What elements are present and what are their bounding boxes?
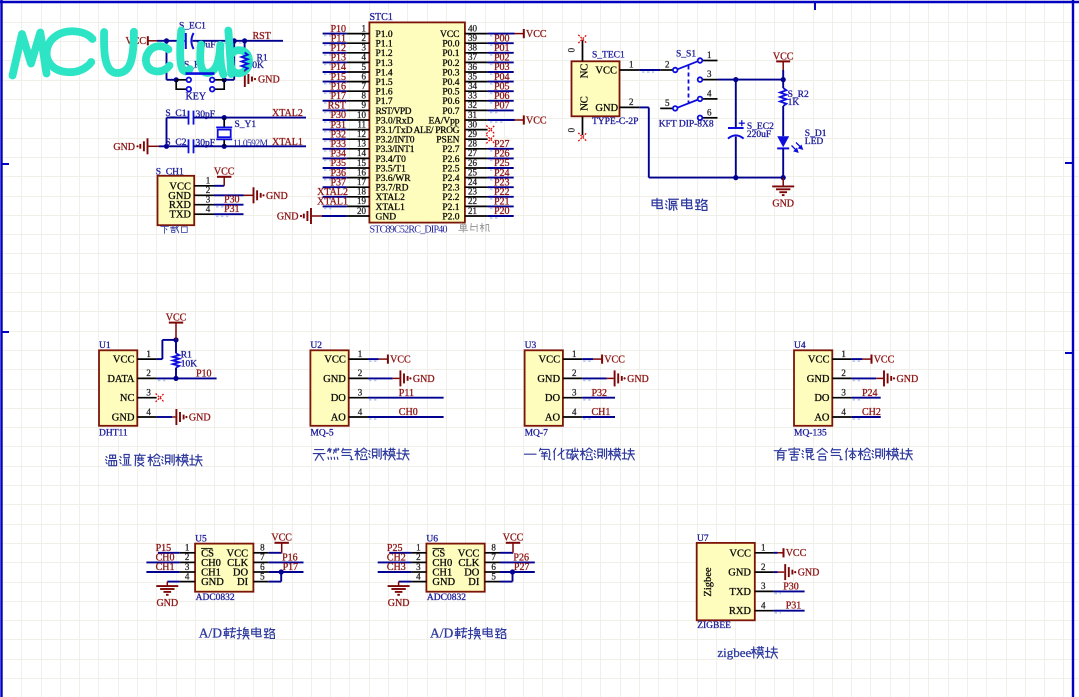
svg-text:0: 0 — [567, 127, 577, 132]
svg-text:1: 1 — [841, 349, 846, 359]
pin 3 STC1 P1.2 — [347, 52, 370, 54]
svg-text:P1.0: P1.0 — [376, 30, 393, 40]
pin 6 U6 — [485, 571, 500, 573]
svg-text:VCC: VCC — [440, 30, 460, 40]
svg-text:7: 7 — [491, 552, 496, 562]
pin 31 STC1 EA/Vpp — [465, 119, 488, 121]
pin 27 STC1 P2.6 — [465, 157, 488, 159]
pin 12 STC1 P3.2/INT0 — [347, 138, 370, 140]
pin 8 U6 — [485, 552, 500, 554]
pin 3 U6 — [411, 571, 426, 573]
pin 3 U3 — [563, 397, 582, 399]
pin 35 STC1 P0.4 — [465, 81, 488, 83]
svg-text:PSEN: PSEN — [436, 136, 459, 146]
svg-text:23: 23 — [468, 187, 478, 197]
svg-text:VCC: VCC — [604, 355, 625, 366]
pin 3 U4 — [832, 397, 851, 399]
pin 15 STC1 P3.5/T1 — [347, 167, 370, 169]
power port VCC (U5) — [281, 543, 283, 553]
pin 3 U7 — [755, 590, 774, 592]
svg-text:AO: AO — [331, 413, 347, 424]
svg-text:2: 2 — [841, 368, 846, 378]
svg-text:8: 8 — [362, 91, 367, 101]
svg-text:S_S1: S_S1 — [676, 50, 696, 60]
svg-text:GND: GND — [897, 374, 919, 385]
svg-text:2: 2 — [665, 60, 670, 70]
pin 24 STC1 P2.3 — [465, 186, 488, 188]
pin 2 S_CH1 — [194, 194, 214, 196]
svg-text:GND: GND — [277, 212, 299, 223]
svg-text:DI: DI — [237, 577, 249, 588]
svg-text:8: 8 — [491, 543, 496, 553]
svg-text:XTAL1: XTAL1 — [317, 197, 348, 208]
label module caption U4 — [774, 448, 786, 460]
node reset-left — [164, 38, 169, 43]
label download-port — [161, 226, 169, 233]
svg-text:ADC0832: ADC0832 — [427, 593, 466, 603]
svg-text:TXD: TXD — [729, 587, 751, 598]
pin 13 STC1 P3.3/INT1 — [347, 148, 370, 150]
pin 7 U6 — [485, 561, 500, 563]
wire crystal left — [159, 145, 188, 147]
ground GND (STC1 pin 20) — [304, 208, 311, 224]
svg-text:VCC: VCC — [786, 548, 807, 559]
pin 11 STC1 P3.1/TxD — [347, 129, 370, 131]
pin 4 STC1 P1.3 — [347, 61, 370, 63]
svg-text:VCC: VCC — [526, 115, 547, 126]
pin 1 STC1 P1.0 — [347, 33, 370, 35]
pin 1 U7 — [755, 552, 774, 554]
pin 7 STC1 P1.6 — [347, 90, 370, 92]
wire net P23 (STC1 right) — [488, 186, 514, 188]
wire ground rail — [649, 177, 783, 179]
pin 26 STC1 P2.5 — [465, 167, 488, 169]
key switch S_K1 labels — [174, 77, 179, 82]
label module caption U3 — [524, 453, 536, 455]
wire pin1 VCC (U2) — [368, 358, 379, 360]
svg-text:S_Y1: S_Y1 — [235, 120, 257, 130]
wire net P03 (STC1 right) — [488, 71, 514, 73]
pin 4 U2 — [349, 416, 368, 418]
wire net CH0 (U5) — [146, 561, 179, 563]
wire net P11 (STC1 left) — [323, 42, 347, 44]
wire net P01 (STC1 right) — [488, 52, 514, 54]
wire net P30 (STC1 left) — [323, 119, 347, 121]
svg-text:3: 3 — [146, 388, 151, 398]
pin 10 STC1 P3.0/RxD — [347, 119, 370, 121]
svg-text:P3.7/RD: P3.7/RD — [376, 184, 409, 194]
wire pin4 to ground (U5) — [167, 581, 180, 583]
svg-text:TYPE-C-2P: TYPE-C-2P — [592, 117, 638, 127]
svg-text:4: 4 — [146, 407, 151, 417]
wire net P26 (U6) — [500, 561, 535, 563]
wire net RST (STC1 left) — [323, 109, 347, 111]
pin 7 U5 — [253, 561, 268, 563]
wire net P24 (U4) — [852, 397, 881, 399]
svg-text:S_C1: S_C1 — [165, 109, 186, 119]
wire node to R2 — [782, 80, 784, 88]
pin 39 STC1 P0.0 — [465, 42, 488, 44]
wire net P31 (STC1 left) — [323, 129, 347, 131]
svg-text:11: 11 — [357, 119, 366, 129]
svg-text:1: 1 — [362, 23, 367, 33]
pin 23 STC1 P2.2 — [465, 196, 488, 198]
svg-text:GND: GND — [595, 103, 618, 114]
svg-text:15: 15 — [357, 158, 367, 168]
pin 4 U3 — [563, 416, 582, 418]
wire net P10 (U1) — [157, 377, 217, 379]
svg-text:A/D: A/D — [199, 626, 223, 641]
svg-text:P2.6: P2.6 — [442, 155, 459, 165]
svg-text:MQ-7: MQ-7 — [525, 428, 548, 438]
svg-text:0: 0 — [567, 47, 577, 52]
node R1-top — [173, 337, 178, 342]
svg-text:VCC: VCC — [113, 355, 135, 366]
svg-text:P1.7: P1.7 — [376, 97, 393, 107]
svg-text:2: 2 — [572, 368, 577, 378]
ground GND (crystal) — [140, 138, 147, 154]
wire net P32 (U3) — [582, 397, 615, 399]
pin 18 STC1 XTAL2 — [347, 196, 370, 198]
svg-text:25: 25 — [468, 167, 478, 177]
pin 32 STC1 P0.7 — [465, 109, 488, 111]
svg-text:1: 1 — [629, 60, 634, 70]
power port GND (U7) — [785, 564, 792, 580]
wire net P22 (STC1 right) — [488, 196, 514, 198]
wire net CH0 (U2) — [368, 416, 444, 418]
pin 1 U1 — [137, 358, 156, 360]
svg-text:P3.4/T0: P3.4/T0 — [376, 155, 407, 165]
wire net P15 (U5) — [158, 552, 180, 554]
pin 38 STC1 P0.1 — [465, 52, 488, 54]
pin 2 U3 — [563, 377, 582, 379]
svg-text:P31: P31 — [786, 601, 802, 612]
svg-text:2: 2 — [629, 97, 634, 107]
pin 2 U7 — [755, 571, 774, 573]
svg-text:28: 28 — [468, 139, 478, 149]
svg-text:P10: P10 — [196, 368, 212, 379]
svg-text:10: 10 — [357, 110, 367, 120]
wire pin8 VCC (U5) — [269, 552, 282, 554]
diode S_D1 LED — [777, 136, 789, 147]
svg-text:STC89C52RC_DIP40: STC89C52RC_DIP40 — [370, 224, 448, 235]
wire net P04 (STC1 right) — [488, 81, 514, 83]
svg-text:P0.6: P0.6 — [442, 97, 459, 107]
svg-text:3: 3 — [362, 43, 367, 53]
svg-text:8: 8 — [260, 543, 265, 553]
wire net P14 (STC1 left) — [323, 71, 347, 73]
svg-text:P32: P32 — [592, 388, 608, 399]
wire net P33 (STC1 left) — [323, 148, 347, 150]
svg-text:P1.5: P1.5 — [376, 78, 393, 88]
wire U1 pin1 bend up — [157, 358, 163, 360]
power port VCC (STC1 pin 31) — [523, 115, 525, 124]
svg-text:GND: GND — [156, 598, 178, 609]
svg-text:TXD: TXD — [169, 210, 191, 221]
node Y1-bottom — [222, 144, 227, 149]
resistor R1 10K (U1) — [175, 340, 177, 353]
pin 22 STC1 P2.1 — [465, 205, 488, 207]
svg-text:XTAL1: XTAL1 — [272, 137, 303, 148]
pin 1 S_TEC1 — [620, 69, 640, 71]
svg-text:P1.3: P1.3 — [376, 59, 393, 69]
node VCC-R2 — [781, 77, 786, 82]
svg-text:3: 3 — [761, 581, 766, 591]
svg-text:GND: GND — [113, 142, 135, 153]
pin 0 bottom S_TEC1 — [582, 116, 584, 135]
wire net CH2 (U4) — [852, 416, 881, 418]
wire VCC to EC1 — [157, 40, 185, 42]
wire TEC1 GND down — [639, 106, 649, 108]
wire net P25 (U6) — [389, 552, 411, 554]
svg-text:4: 4 — [572, 407, 577, 417]
wire net P06 (STC1 right) — [488, 100, 514, 102]
no-connect U1 pin3 — [156, 394, 164, 402]
svg-text:NC: NC — [120, 393, 135, 404]
resistor S_R2 1K — [780, 88, 786, 106]
svg-text:VCC: VCC — [324, 355, 346, 366]
svg-text:P0.0: P0.0 — [442, 40, 459, 50]
pin 17 STC1 P3.7/RD — [347, 186, 370, 188]
svg-text:P2.4: P2.4 — [442, 174, 459, 184]
svg-text:3: 3 — [358, 388, 363, 398]
key switch S_K1 contacts — [176, 80, 224, 89]
svg-text:S_C2: S_C2 — [165, 138, 186, 148]
svg-text:34: 34 — [468, 81, 478, 91]
svg-text:37: 37 — [468, 52, 478, 62]
svg-text:P2.2: P2.2 — [442, 193, 459, 203]
svg-text:2: 2 — [761, 562, 766, 572]
wire net P05 (STC1 right) — [488, 90, 514, 92]
svg-text:3: 3 — [572, 388, 577, 398]
no-connect TEC1 bottom — [578, 133, 586, 141]
svg-text:GND: GND — [413, 374, 435, 385]
wire pin8 VCC (U6) — [500, 552, 513, 554]
svg-text:P2.7: P2.7 — [442, 145, 459, 155]
wire net P00 (STC1 right) — [488, 42, 514, 44]
svg-text:2: 2 — [358, 368, 363, 378]
svg-text:NC: NC — [580, 96, 591, 111]
svg-text:20: 20 — [357, 206, 367, 216]
pin 30 STC1 ALE/ PROG — [465, 129, 488, 131]
pin 2 S_TEC1 — [620, 106, 640, 108]
node C2-left — [164, 144, 169, 149]
svg-text:4: 4 — [416, 571, 421, 581]
wire switch pin3 to VCC node — [718, 79, 784, 81]
pin 21 STC1 P2.0 — [465, 215, 488, 217]
svg-text:Zigbee: Zigbee — [703, 567, 714, 596]
svg-text:P24: P24 — [862, 388, 878, 399]
svg-text:1: 1 — [146, 349, 151, 359]
svg-text:CH1: CH1 — [156, 562, 175, 573]
svg-text:21: 21 — [468, 206, 477, 216]
power port VCC (U7) — [783, 548, 785, 557]
svg-text:RST/VPD: RST/VPD — [376, 107, 412, 117]
power port GND (U3) — [615, 370, 622, 386]
power port GND (U2) — [400, 370, 407, 386]
svg-text:7: 7 — [362, 81, 367, 91]
svg-text:DO: DO — [545, 393, 561, 404]
pin 36 STC1 P0.3 — [465, 71, 488, 73]
ground GND (U6) — [398, 582, 400, 587]
svg-text:4: 4 — [761, 601, 766, 611]
wire LED to ground rail — [782, 148, 784, 177]
svg-text:17: 17 — [357, 177, 367, 187]
wire net P15 (STC1 left) — [323, 81, 347, 83]
wire net P25 (STC1 right) — [488, 167, 514, 169]
pin 5 STC1 P1.4 — [347, 71, 370, 73]
wire U7 pin2 GND — [774, 571, 778, 573]
svg-text:1: 1 — [185, 543, 190, 553]
wire net P37 (STC1 left) — [323, 186, 347, 188]
svg-text:DO: DO — [814, 393, 830, 404]
svg-text:2: 2 — [362, 33, 367, 43]
wire net P13 (STC1 left) — [323, 61, 347, 63]
wire EC2 vertical top — [735, 80, 737, 128]
svg-text:zigbee: zigbee — [717, 645, 751, 660]
svg-text:GND: GND — [627, 374, 649, 385]
pin 34 STC1 P0.5 — [465, 90, 488, 92]
svg-text:4: 4 — [841, 407, 846, 417]
node Y1-top — [222, 115, 227, 120]
pin 1 S_CH1 — [194, 185, 214, 187]
wire pin5 join (U5) — [269, 581, 282, 583]
svg-text:KFT DIP-8X8: KFT DIP-8X8 — [659, 120, 714, 130]
wire pin1 VCC (U4) — [852, 358, 863, 360]
svg-text:18: 18 — [357, 187, 367, 197]
pin 2 U4 — [832, 377, 851, 379]
svg-text:2: 2 — [416, 552, 421, 562]
wire EC1 to RST — [193, 40, 283, 42]
svg-text:XTAL2: XTAL2 — [376, 193, 406, 203]
svg-text:GND: GND — [432, 577, 455, 588]
svg-text:XTAL1: XTAL1 — [376, 203, 406, 213]
svg-text:5: 5 — [362, 62, 367, 72]
svg-text:4: 4 — [707, 88, 712, 98]
svg-text:26: 26 — [468, 158, 478, 168]
svg-text:VCC: VCC — [526, 29, 547, 40]
svg-text:6: 6 — [491, 562, 496, 572]
svg-text:P0.2: P0.2 — [442, 59, 459, 69]
node A — [232, 38, 237, 43]
label module caption U1 — [106, 455, 117, 466]
svg-text:P31: P31 — [224, 204, 240, 215]
wire net P24 (STC1 right) — [488, 177, 514, 179]
svg-text:36: 36 — [468, 62, 478, 72]
svg-text:35: 35 — [468, 71, 478, 81]
pin 2 U5 — [180, 561, 195, 563]
wire U1 pin4 GND — [157, 416, 173, 418]
wire net P27 (U6) — [500, 571, 535, 573]
wire crystal left vertical — [166, 118, 168, 147]
svg-text:VCC: VCC — [503, 533, 524, 544]
svg-text:38: 38 — [468, 43, 478, 53]
svg-text:AO: AO — [814, 413, 830, 424]
svg-text:220uF: 220uF — [747, 130, 771, 140]
svg-text:RST: RST — [253, 31, 271, 42]
wire net P10 (STC1 left) — [323, 33, 347, 35]
label MCU (gray) — [459, 223, 468, 232]
svg-text:16: 16 — [357, 167, 367, 177]
pin 14 STC1 P3.4/T0 — [347, 157, 370, 159]
svg-text:1: 1 — [572, 349, 577, 359]
svg-text:39: 39 — [468, 33, 478, 43]
wire net P36 (STC1 left) — [323, 177, 347, 179]
power port VCC (STC1 pin 40) — [523, 29, 525, 38]
key switch S_K1 bar — [186, 72, 215, 75]
no-connect TEC1 top — [578, 35, 586, 43]
wire net P07 (STC1 right) — [488, 109, 514, 111]
svg-text:5: 5 — [491, 571, 496, 581]
svg-text:40: 40 — [468, 23, 478, 33]
svg-text:GND: GND — [201, 577, 224, 588]
svg-text:P20: P20 — [494, 206, 510, 217]
wire net P31 (CH1) — [214, 213, 244, 215]
svg-text:DHT11: DHT11 — [99, 428, 128, 438]
svg-text:DO: DO — [331, 393, 347, 404]
svg-text:P3.2/INT0: P3.2/INT0 — [376, 136, 415, 146]
power port VCC (CH1) — [223, 177, 225, 186]
wire C2 to XTAL1 — [194, 145, 307, 147]
wire net P17 (U5) — [269, 571, 304, 573]
wire net P34 (STC1 left) — [323, 157, 347, 159]
svg-text:P27: P27 — [514, 562, 530, 573]
pin 1 U3 — [563, 358, 582, 360]
pin 5 U5 — [253, 581, 268, 583]
svg-text:ZIGBEE: ZIGBEE — [697, 621, 731, 631]
pin 3 U5 — [180, 571, 195, 573]
svg-text:VCC: VCC — [166, 312, 187, 323]
wire net P20 (STC1 right) — [488, 215, 514, 217]
power port GND (U4) — [884, 370, 891, 386]
wire net P21 (STC1 right) — [488, 205, 514, 207]
svg-text:S_TEC1: S_TEC1 — [592, 51, 625, 61]
svg-text:AO: AO — [545, 413, 561, 424]
svg-text:ADC0832: ADC0832 — [196, 593, 235, 603]
pin 1 U4 — [832, 358, 851, 360]
wire R1 top — [244, 41, 246, 53]
svg-text:3: 3 — [185, 562, 190, 572]
svg-text:GND: GND — [728, 568, 751, 579]
wire net P16 (STC1 left) — [323, 90, 347, 92]
svg-text:VCC: VCC — [729, 548, 751, 559]
svg-text:1: 1 — [707, 50, 712, 60]
svg-text:P17: P17 — [283, 562, 299, 573]
svg-text:P1.4: P1.4 — [376, 68, 393, 78]
svg-text:6: 6 — [707, 107, 712, 117]
svg-text:4: 4 — [185, 571, 190, 581]
pin 2 U1 — [137, 377, 156, 379]
svg-text:31: 31 — [468, 110, 477, 120]
label power-circuit — [652, 198, 662, 208]
svg-text:VCC: VCC — [271, 533, 292, 544]
pin 6 U5 — [253, 571, 268, 573]
pin 4 U7 — [755, 610, 774, 612]
svg-text:P1.1: P1.1 — [376, 40, 393, 50]
pin 8 STC1 P1.7 — [347, 100, 370, 102]
pin 40 STC1 VCC — [465, 33, 488, 35]
wire net P26 (STC1 right) — [488, 157, 514, 159]
svg-text:P3.3/INT1: P3.3/INT1 — [376, 145, 415, 155]
svg-text:1: 1 — [358, 349, 363, 359]
wire net P27 (STC1 right) — [488, 148, 514, 150]
svg-text:P30: P30 — [783, 581, 799, 592]
wire CH1 pin1 to VCC — [214, 185, 224, 187]
capacitor S_EC1 plates — [186, 33, 194, 49]
svg-text:CH3: CH3 — [387, 562, 406, 573]
svg-text:1: 1 — [416, 543, 421, 553]
svg-text:GND: GND — [537, 374, 560, 385]
